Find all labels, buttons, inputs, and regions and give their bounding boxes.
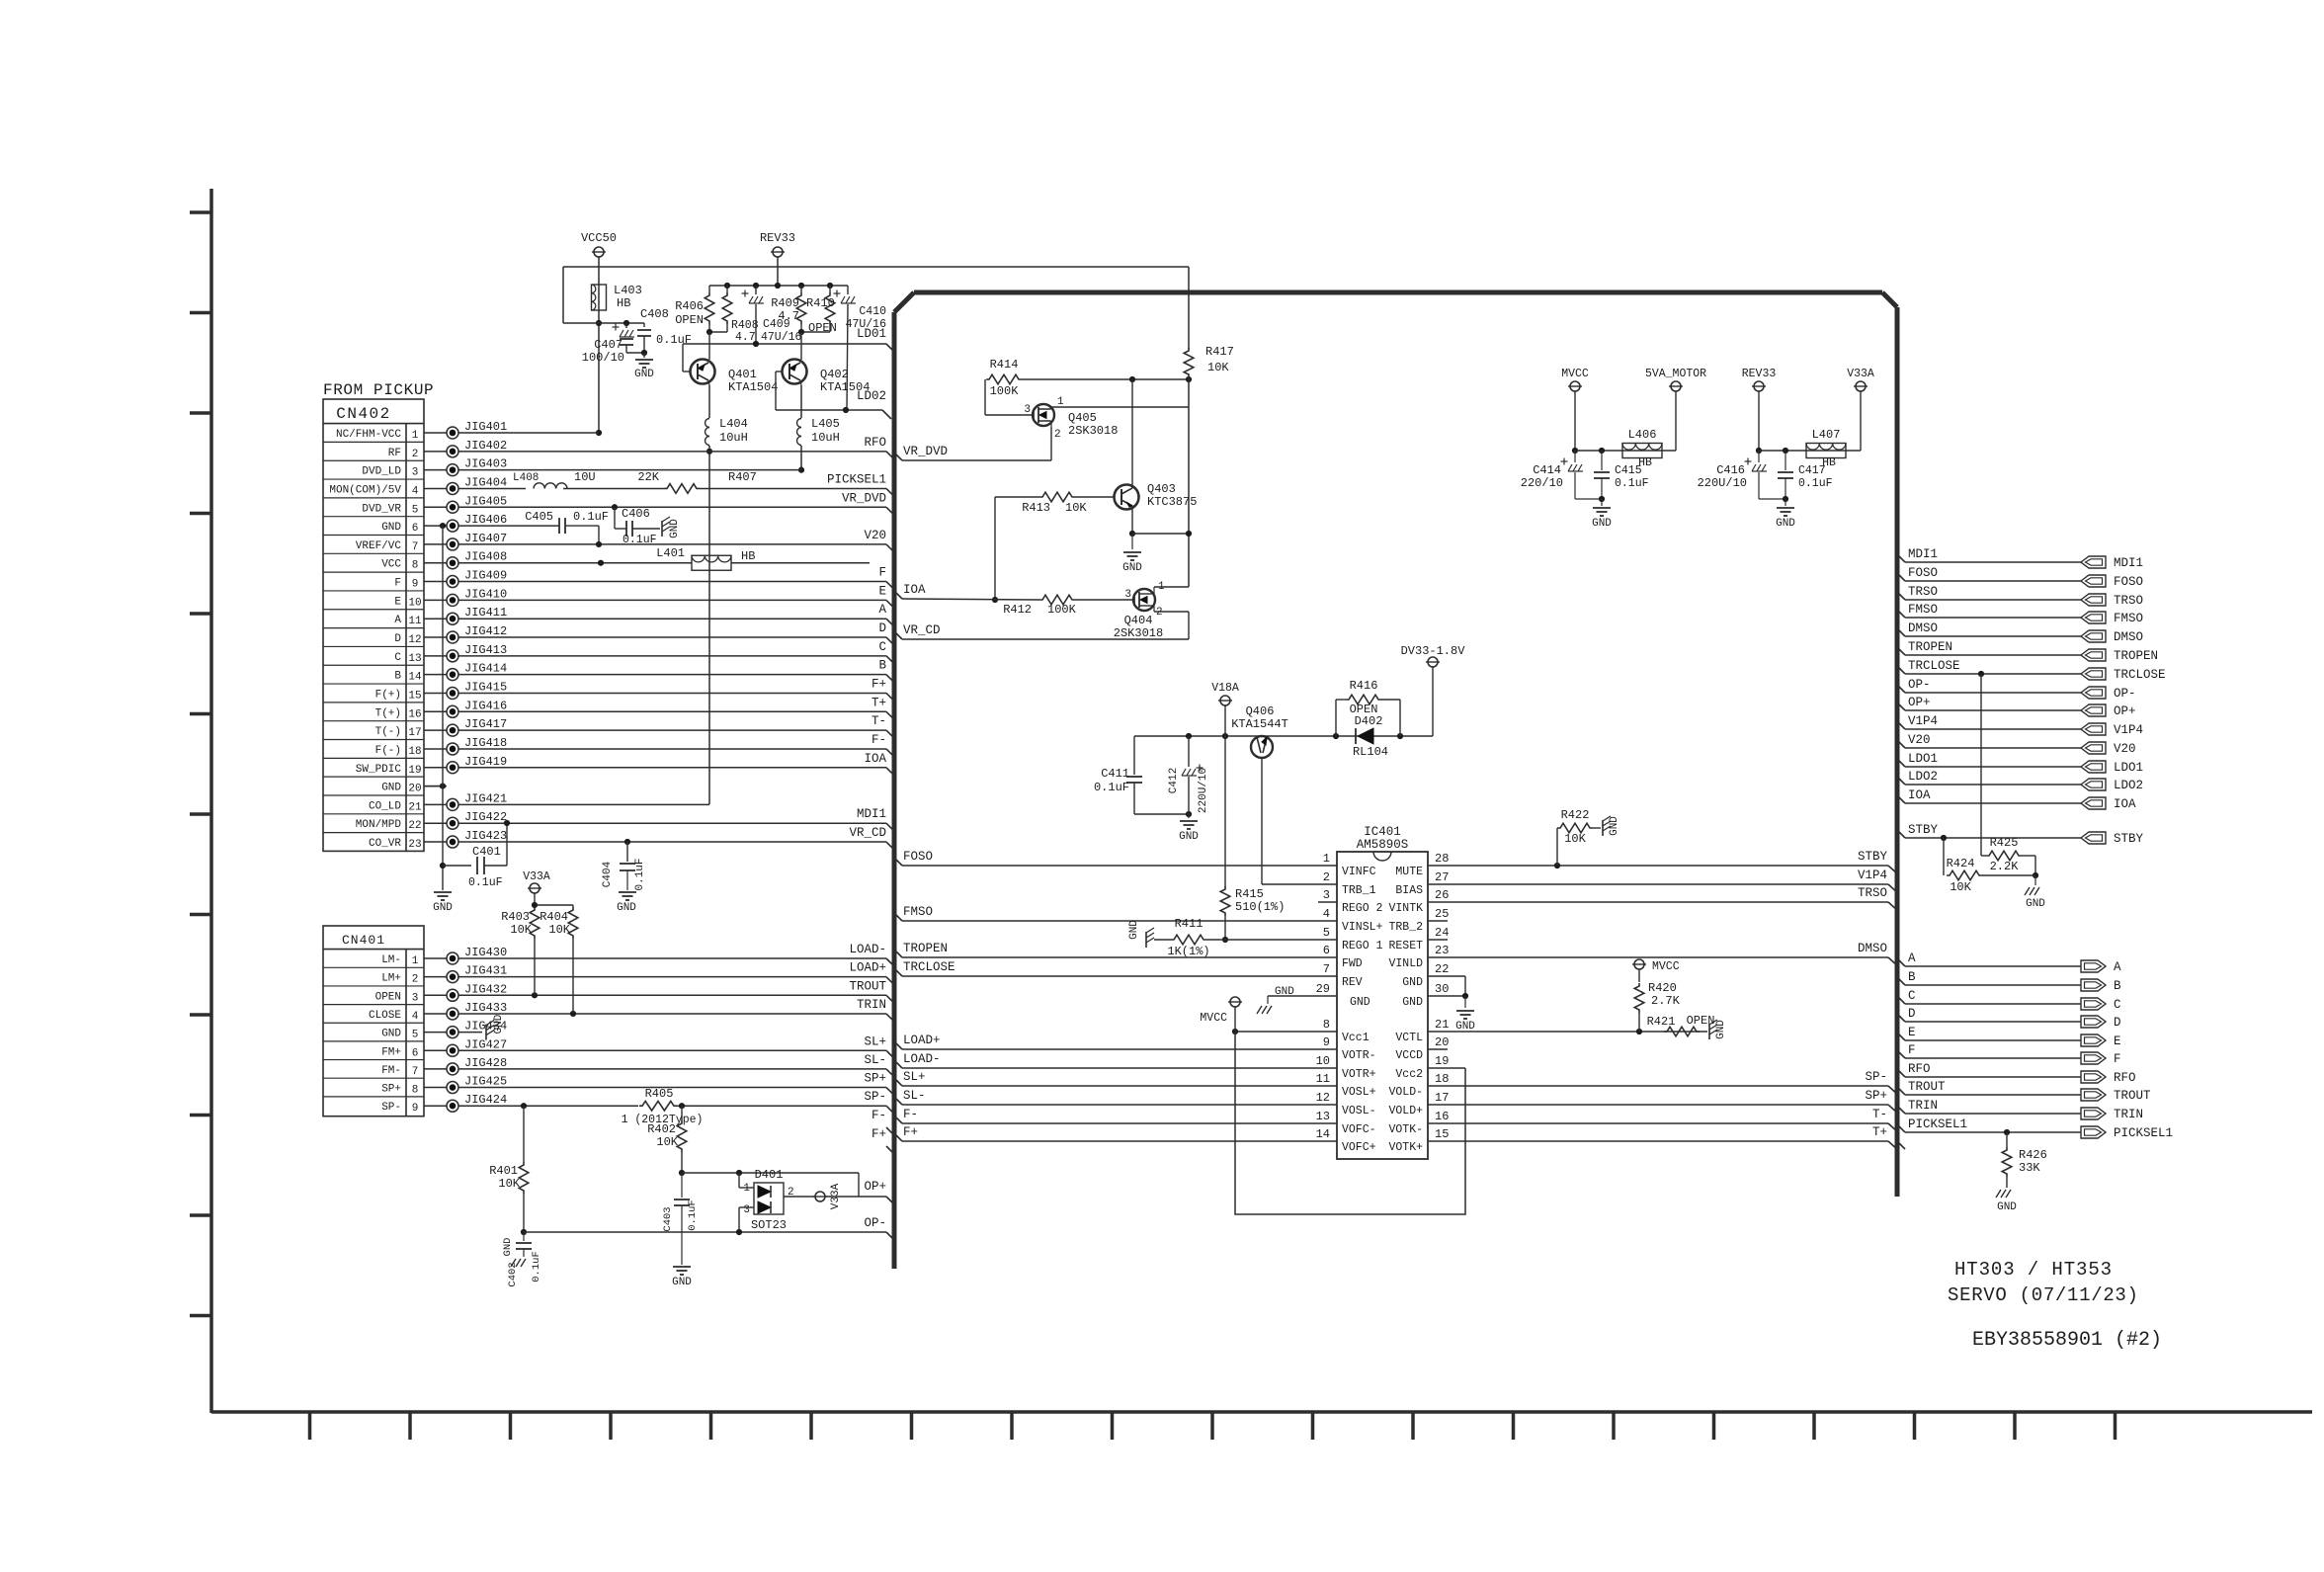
svg-text:F: F — [394, 578, 401, 590]
svg-text:20: 20 — [1435, 1035, 1449, 1049]
svg-text:TRCLOSE: TRCLOSE — [2114, 668, 2166, 682]
svg-text:R403: R403 — [501, 910, 530, 924]
svg-text:5: 5 — [412, 504, 419, 516]
svg-text:IOA: IOA — [1908, 788, 1931, 802]
svg-text:10K: 10K — [1065, 501, 1087, 515]
svg-text:C401: C401 — [472, 845, 501, 859]
svg-text:KTA1504: KTA1504 — [728, 380, 778, 394]
svg-text:L406: L406 — [1628, 428, 1657, 442]
svg-text:SW_PDIC: SW_PDIC — [356, 764, 402, 776]
svg-text:GND: GND — [1715, 1020, 1727, 1039]
svg-text:C414: C414 — [1533, 463, 1561, 477]
svg-text:B: B — [394, 671, 401, 683]
svg-text:REV33: REV33 — [760, 231, 795, 245]
svg-text:V33A: V33A — [1847, 368, 1874, 380]
svg-text:V20: V20 — [864, 529, 886, 542]
svg-text:11: 11 — [1316, 1072, 1330, 1086]
svg-text:GND: GND — [617, 902, 636, 914]
svg-text:21: 21 — [1435, 1018, 1449, 1032]
svg-text:100K: 100K — [990, 384, 1020, 398]
svg-text:10K: 10K — [1207, 361, 1229, 374]
svg-text:V33A: V33A — [830, 1183, 842, 1209]
svg-text:TRCLOSE: TRCLOSE — [1908, 659, 1960, 673]
svg-text:JIG403: JIG403 — [464, 457, 507, 471]
svg-text:Q404: Q404 — [1124, 614, 1153, 627]
svg-text:JIG414: JIG414 — [464, 662, 507, 676]
svg-text:VOSL-: VOSL- — [1342, 1105, 1376, 1117]
svg-text:R421: R421 — [1647, 1015, 1676, 1029]
svg-text:VCTL: VCTL — [1395, 1032, 1423, 1044]
svg-text:TRSO: TRSO — [1908, 585, 1938, 599]
svg-text:18: 18 — [1435, 1072, 1449, 1086]
svg-text:F+: F+ — [871, 1127, 886, 1141]
svg-text:1: 1 — [412, 955, 419, 967]
svg-text:7: 7 — [1323, 962, 1330, 976]
svg-text:GND: GND — [669, 519, 681, 538]
svg-text:C: C — [878, 640, 886, 654]
svg-text:GND: GND — [1776, 518, 1795, 530]
svg-text:JIG402: JIG402 — [464, 439, 507, 453]
svg-text:7: 7 — [412, 1066, 419, 1078]
svg-text:VCC: VCC — [381, 559, 401, 571]
svg-text:AM5890S: AM5890S — [1357, 838, 1409, 852]
svg-text:5: 5 — [412, 1030, 419, 1041]
svg-text:GND: GND — [1609, 816, 1620, 836]
svg-text:R407: R407 — [728, 470, 757, 484]
svg-text:6: 6 — [412, 523, 419, 535]
svg-text:4.7: 4.7 — [778, 309, 799, 323]
svg-text:10K: 10K — [1564, 832, 1586, 846]
svg-text:R401: R401 — [489, 1164, 518, 1178]
svg-text:4: 4 — [412, 1011, 419, 1023]
svg-text:20: 20 — [408, 784, 421, 795]
svg-text:FMSO: FMSO — [1908, 603, 1938, 617]
svg-text:DMSO: DMSO — [1858, 942, 1887, 955]
svg-text:NC/FHM-VCC: NC/FHM-VCC — [336, 429, 401, 441]
svg-text:Vcc1: Vcc1 — [1342, 1032, 1369, 1044]
svg-text:C411: C411 — [1101, 767, 1129, 781]
svg-text:JIG411: JIG411 — [464, 606, 507, 620]
svg-text:CO_VR: CO_VR — [369, 838, 401, 850]
svg-text:F: F — [1908, 1043, 1916, 1057]
svg-text:C406: C406 — [622, 507, 650, 521]
svg-text:STBY: STBY — [1858, 850, 1888, 864]
svg-text:SP-: SP- — [864, 1090, 886, 1104]
svg-text:29: 29 — [1316, 982, 1330, 996]
svg-text:OP+: OP+ — [1908, 696, 1931, 709]
svg-text:5VA_MOTOR: 5VA_MOTOR — [1645, 368, 1706, 380]
svg-text:JIG405: JIG405 — [464, 494, 507, 508]
svg-text:R412: R412 — [1003, 603, 1032, 617]
svg-text:C408: C408 — [640, 307, 669, 321]
svg-text:0.1uF: 0.1uF — [1798, 477, 1833, 490]
svg-text:C: C — [394, 652, 401, 664]
svg-text:R417: R417 — [1205, 345, 1234, 359]
svg-text:T+: T+ — [871, 696, 886, 709]
svg-text:8: 8 — [1323, 1018, 1330, 1032]
svg-text:JIG413: JIG413 — [464, 643, 507, 657]
svg-text:A: A — [878, 603, 886, 617]
svg-text:2.2K: 2.2K — [1990, 860, 2020, 873]
svg-text:L405: L405 — [811, 417, 840, 431]
svg-text:2: 2 — [1156, 607, 1163, 619]
svg-text:10K: 10K — [656, 1135, 678, 1149]
svg-text:LDO1: LDO1 — [1908, 752, 1938, 766]
svg-text:D402: D402 — [1355, 714, 1383, 728]
svg-text:OPEN: OPEN — [1687, 1014, 1715, 1028]
svg-text:TROPEN: TROPEN — [2114, 649, 2158, 663]
svg-text:TRB_2: TRB_2 — [1388, 921, 1423, 934]
svg-text:E: E — [878, 584, 886, 598]
svg-text:T(-): T(-) — [375, 726, 401, 738]
svg-text:JIG430: JIG430 — [464, 946, 507, 959]
svg-text:DMSO: DMSO — [2114, 630, 2143, 644]
svg-text:JIG415: JIG415 — [464, 680, 507, 694]
svg-text:10: 10 — [1316, 1054, 1330, 1068]
svg-text:T-: T- — [1872, 1108, 1887, 1121]
svg-text:DVD_VR: DVD_VR — [362, 503, 401, 515]
svg-text:C405: C405 — [525, 510, 553, 524]
svg-text:220U/10: 220U/10 — [1698, 476, 1747, 490]
svg-text:33K: 33K — [2019, 1161, 2040, 1175]
svg-text:OP-: OP- — [2114, 687, 2136, 701]
svg-text:B: B — [878, 659, 886, 673]
svg-text:R424: R424 — [1947, 857, 1975, 870]
svg-text:JIG422: JIG422 — [464, 810, 507, 824]
svg-text:RESET: RESET — [1388, 940, 1423, 952]
svg-text:FOSO: FOSO — [903, 850, 933, 864]
svg-text:2SK3018: 2SK3018 — [1068, 424, 1118, 438]
svg-text:VOTK-: VOTK- — [1388, 1123, 1423, 1136]
svg-text:16: 16 — [408, 708, 421, 720]
svg-text:C410: C410 — [859, 305, 886, 318]
svg-text:LM+: LM+ — [381, 973, 401, 985]
svg-text:12: 12 — [408, 634, 421, 646]
svg-text:13: 13 — [408, 653, 421, 665]
svg-text:100/10: 100/10 — [582, 351, 624, 365]
svg-text:VOTK+: VOTK+ — [1388, 1141, 1423, 1154]
svg-text:R411: R411 — [1175, 917, 1203, 931]
svg-text:REGO 1: REGO 1 — [1342, 940, 1383, 952]
svg-text:24: 24 — [1435, 926, 1449, 940]
svg-text:F-: F- — [871, 1109, 886, 1122]
svg-text:LD02: LD02 — [857, 389, 886, 403]
svg-text:BIAS: BIAS — [1395, 884, 1423, 897]
svg-text:2: 2 — [412, 974, 419, 986]
svg-text:E: E — [2114, 1034, 2121, 1048]
svg-text:JIG419: JIG419 — [464, 755, 507, 769]
svg-text:D: D — [878, 621, 886, 635]
svg-text:5: 5 — [1323, 926, 1330, 940]
svg-text:HT303 / HT353: HT303 / HT353 — [1954, 1259, 2113, 1281]
svg-text:0.1uF: 0.1uF — [573, 510, 609, 524]
svg-text:2: 2 — [1323, 870, 1330, 884]
svg-text:2: 2 — [412, 449, 419, 460]
svg-text:16: 16 — [1435, 1110, 1449, 1123]
svg-text:MDI1: MDI1 — [2114, 556, 2143, 570]
svg-text:SOT23: SOT23 — [751, 1218, 787, 1232]
svg-text:OP+: OP+ — [864, 1180, 886, 1194]
svg-text:MVCC: MVCC — [1200, 1012, 1227, 1025]
svg-text:SL+: SL+ — [903, 1070, 926, 1084]
svg-text:IOA: IOA — [864, 752, 886, 766]
svg-text:22K: 22K — [637, 470, 659, 484]
svg-text:FOSO: FOSO — [1908, 566, 1938, 580]
svg-text:Q402: Q402 — [820, 368, 849, 381]
svg-text:F(-): F(-) — [375, 745, 401, 757]
svg-text:17: 17 — [1435, 1091, 1449, 1105]
svg-text:JIG418: JIG418 — [464, 736, 507, 750]
svg-text:VOTR-: VOTR- — [1342, 1049, 1376, 1062]
svg-text:R402: R402 — [647, 1122, 676, 1136]
svg-text:FMSO: FMSO — [2114, 612, 2143, 625]
svg-text:R415: R415 — [1235, 887, 1264, 901]
svg-text:MVCC: MVCC — [1561, 368, 1589, 380]
svg-text:FWD: FWD — [1342, 957, 1363, 970]
svg-text:15: 15 — [408, 690, 421, 702]
svg-text:8: 8 — [412, 1085, 419, 1097]
svg-text:IC401: IC401 — [1364, 825, 1401, 839]
svg-text:LOAD-: LOAD- — [849, 943, 886, 956]
svg-text:7: 7 — [412, 541, 419, 553]
svg-text:VOTR+: VOTR+ — [1342, 1068, 1376, 1081]
svg-text:E: E — [1908, 1026, 1916, 1039]
svg-text:JIG428: JIG428 — [464, 1056, 507, 1070]
svg-text:GND: GND — [1402, 976, 1423, 989]
svg-text:MVCC: MVCC — [1652, 960, 1680, 973]
svg-text:JIG421: JIG421 — [464, 791, 507, 805]
svg-text:GND: GND — [502, 1238, 514, 1257]
svg-text:100K: 100K — [1047, 603, 1077, 617]
svg-text:R409: R409 — [771, 296, 799, 310]
svg-text:D: D — [394, 633, 401, 645]
svg-text:L404: L404 — [719, 417, 748, 431]
svg-text:30: 30 — [1435, 982, 1449, 996]
svg-text:VOSL+: VOSL+ — [1342, 1086, 1376, 1099]
svg-text:TRCLOSE: TRCLOSE — [903, 960, 955, 974]
svg-text:LDO1: LDO1 — [2114, 761, 2143, 775]
svg-text:47U/16: 47U/16 — [761, 331, 802, 344]
svg-text:TRSO: TRSO — [1858, 886, 1887, 900]
svg-text:LDO2: LDO2 — [1908, 770, 1938, 784]
svg-text:C: C — [1908, 989, 1916, 1003]
svg-text:0.1uF: 0.1uF — [1615, 477, 1649, 490]
svg-text:VCCD: VCCD — [1395, 1049, 1423, 1062]
svg-text:Q406: Q406 — [1246, 704, 1275, 718]
svg-text:SERVO (07/11/23): SERVO (07/11/23) — [1948, 1284, 2139, 1306]
svg-text:DV33-1.8V: DV33-1.8V — [1401, 644, 1466, 658]
svg-text:27: 27 — [1435, 870, 1449, 884]
svg-text:JIG412: JIG412 — [464, 624, 507, 638]
svg-text:17: 17 — [408, 727, 421, 739]
svg-text:B: B — [1908, 970, 1916, 984]
svg-text:F-: F- — [871, 733, 886, 747]
svg-text:10K: 10K — [548, 923, 570, 937]
svg-text:8: 8 — [412, 560, 419, 572]
svg-text:MON(COM)/5V: MON(COM)/5V — [329, 484, 401, 496]
svg-text:C415: C415 — [1615, 464, 1642, 477]
svg-text:9: 9 — [1323, 1035, 1330, 1049]
svg-text:TRIN: TRIN — [857, 998, 886, 1012]
svg-text:F+: F+ — [903, 1125, 918, 1139]
svg-text:6: 6 — [412, 1047, 419, 1059]
svg-text:CN402: CN402 — [336, 405, 391, 423]
svg-text:LD01: LD01 — [857, 327, 886, 341]
svg-text:GND: GND — [1455, 1021, 1475, 1033]
svg-text:V20: V20 — [1908, 733, 1931, 747]
svg-text:F: F — [2114, 1052, 2121, 1066]
svg-text:T(+): T(+) — [375, 707, 401, 719]
svg-text:3: 3 — [743, 1204, 750, 1216]
svg-text:D: D — [1908, 1007, 1916, 1021]
svg-text:F: F — [878, 566, 886, 580]
svg-text:B: B — [2114, 979, 2121, 993]
svg-text:T+: T+ — [1872, 1125, 1887, 1139]
svg-text:JIG401: JIG401 — [464, 420, 507, 434]
svg-text:LOAD+: LOAD+ — [903, 1034, 941, 1047]
svg-text:DMSO: DMSO — [1908, 621, 1938, 635]
svg-text:10U: 10U — [574, 470, 596, 484]
svg-text:22: 22 — [408, 820, 421, 832]
svg-text:2.7K: 2.7K — [1651, 994, 1681, 1008]
svg-text:TRSO: TRSO — [2114, 594, 2143, 608]
svg-text:RL104: RL104 — [1353, 745, 1388, 759]
svg-text:STBY: STBY — [2114, 832, 2144, 846]
svg-text:10uH: 10uH — [811, 431, 840, 445]
svg-text:JIG404: JIG404 — [464, 475, 507, 489]
svg-text:26: 26 — [1435, 888, 1449, 902]
svg-text:R416: R416 — [1350, 679, 1378, 693]
svg-text:JIG425: JIG425 — [464, 1075, 507, 1089]
svg-text:1K(1%): 1K(1%) — [1167, 945, 1209, 958]
svg-text:21: 21 — [408, 801, 422, 813]
svg-text:25: 25 — [1435, 907, 1449, 921]
svg-text:18: 18 — [408, 746, 421, 758]
svg-text:GND: GND — [1592, 518, 1612, 530]
svg-text:VOLD-: VOLD- — [1388, 1086, 1423, 1099]
svg-text:SL+: SL+ — [864, 1034, 886, 1048]
svg-text:TRIN: TRIN — [1908, 1099, 1938, 1113]
svg-text:R405: R405 — [645, 1087, 674, 1101]
svg-text:1: 1 — [1057, 396, 1064, 408]
svg-text:TRIN: TRIN — [2114, 1108, 2143, 1121]
svg-text:SP+: SP+ — [381, 1084, 401, 1096]
svg-text:Q405: Q405 — [1068, 411, 1097, 425]
svg-text:VCC50: VCC50 — [581, 231, 617, 245]
svg-text:MUTE: MUTE — [1395, 866, 1423, 878]
svg-text:C407: C407 — [594, 338, 622, 352]
svg-text:MON/MPD: MON/MPD — [356, 819, 402, 831]
svg-text:Q401: Q401 — [728, 368, 757, 381]
svg-text:A: A — [2114, 960, 2121, 974]
svg-text:JIG407: JIG407 — [464, 532, 507, 545]
svg-text:12: 12 — [1316, 1091, 1330, 1105]
svg-text:MDI1: MDI1 — [1908, 547, 1938, 561]
svg-text:D401: D401 — [755, 1168, 784, 1182]
svg-text:JIG417: JIG417 — [464, 717, 507, 731]
svg-text:V20: V20 — [2114, 742, 2136, 756]
svg-text:JIG423: JIG423 — [464, 829, 507, 843]
svg-text:STBY: STBY — [1908, 823, 1939, 837]
svg-text:GND: GND — [672, 1277, 692, 1288]
svg-text:JIG433: JIG433 — [464, 1001, 507, 1015]
svg-text:PICKSEL1: PICKSEL1 — [827, 472, 886, 486]
svg-text:GND: GND — [381, 783, 401, 794]
svg-text:10: 10 — [408, 597, 421, 609]
svg-text:C402: C402 — [507, 1262, 519, 1286]
svg-text:SL-: SL- — [864, 1053, 886, 1067]
svg-text:3: 3 — [1024, 404, 1031, 416]
svg-text:3: 3 — [412, 992, 419, 1004]
svg-text:V1P4: V1P4 — [1908, 714, 1938, 728]
svg-text:V1P4: V1P4 — [2114, 723, 2143, 737]
svg-text:OP-: OP- — [1908, 678, 1931, 692]
svg-text:JIG409: JIG409 — [464, 569, 507, 583]
svg-text:GND: GND — [1350, 996, 1370, 1009]
svg-text:DVD_LD: DVD_LD — [362, 466, 401, 478]
svg-text:6: 6 — [1323, 944, 1330, 957]
svg-text:JIG416: JIG416 — [464, 699, 507, 712]
svg-text:F+: F+ — [871, 677, 886, 691]
svg-text:TROUT: TROUT — [849, 979, 886, 993]
svg-text:15: 15 — [1435, 1127, 1449, 1141]
svg-text:Q403: Q403 — [1147, 482, 1176, 496]
svg-text:0.1uF: 0.1uF — [468, 876, 503, 889]
svg-text:3: 3 — [412, 467, 419, 479]
svg-text:SP-: SP- — [381, 1102, 401, 1114]
svg-text:VR_CD: VR_CD — [903, 623, 941, 637]
svg-text:28: 28 — [1435, 852, 1449, 866]
svg-text:VINLD: VINLD — [1388, 957, 1423, 970]
svg-text:C417: C417 — [1798, 464, 1826, 477]
svg-text:JIG432: JIG432 — [464, 982, 507, 996]
svg-text:LOAD+: LOAD+ — [849, 961, 886, 975]
svg-text:TROPEN: TROPEN — [1908, 640, 1952, 654]
svg-text:RFO: RFO — [864, 436, 886, 450]
svg-text:OP+: OP+ — [2114, 704, 2136, 718]
svg-text:23: 23 — [1435, 944, 1449, 957]
svg-text:D: D — [2114, 1016, 2121, 1030]
svg-text:4: 4 — [1323, 907, 1330, 921]
svg-text:0.1uF: 0.1uF — [1094, 781, 1129, 794]
svg-text:22: 22 — [1435, 962, 1449, 976]
svg-text:GND: GND — [1275, 986, 1294, 998]
svg-text:R413: R413 — [1022, 501, 1050, 515]
svg-text:CLOSE: CLOSE — [369, 1010, 401, 1022]
svg-text:LM-: LM- — [381, 954, 401, 966]
svg-text:R406: R406 — [675, 299, 704, 313]
svg-text:14: 14 — [408, 672, 422, 684]
svg-text:C404: C404 — [602, 861, 614, 887]
svg-text:GND: GND — [2026, 898, 2045, 910]
svg-text:FROM PICKUP: FROM PICKUP — [323, 381, 434, 399]
svg-text:A: A — [1908, 951, 1916, 965]
svg-text:R426: R426 — [2019, 1148, 2047, 1162]
svg-text:L408: L408 — [513, 472, 539, 484]
svg-text:IOA: IOA — [2114, 797, 2136, 811]
svg-text:RFO: RFO — [1908, 1062, 1931, 1076]
svg-text:IOA: IOA — [903, 583, 926, 597]
svg-text:C: C — [2114, 998, 2121, 1012]
svg-text:VOLD+: VOLD+ — [1388, 1105, 1423, 1117]
svg-text:9: 9 — [412, 579, 419, 591]
svg-text:TRB_1: TRB_1 — [1342, 884, 1376, 897]
svg-text:JIG410: JIG410 — [464, 587, 507, 601]
svg-text:CN401: CN401 — [342, 933, 385, 948]
svg-text:VREF/VC: VREF/VC — [356, 540, 402, 552]
svg-text:RFO: RFO — [2114, 1071, 2136, 1085]
svg-text:4.7: 4.7 — [735, 331, 756, 344]
